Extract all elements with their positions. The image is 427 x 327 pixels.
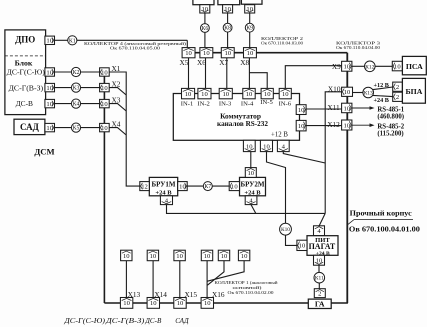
svg-text:IN-5: IN-5 [260,99,273,106]
svg-text:10: 10 [263,143,270,150]
connector 10 on БРУ1М [178,182,188,191]
cable К10 [280,223,292,235]
svg-text:К12: К12 [365,64,374,70]
connector X2 [100,83,110,91]
connector X7 [221,48,234,58]
svg-text:Ок 670.110.04.04.00: Ок 670.110.04.04.00 [336,45,380,50]
svg-text:ДС-Г(В-З): ДС-Г(В-З) [9,83,44,92]
svg-text:10: 10 [224,6,231,13]
wire К1 drop into X5 [186,40,188,47]
svg-text:10: 10 [248,170,255,177]
wire T2 to К8 [227,13,229,23]
dashed divider inside ДСМ box [5,55,46,57]
svg-text:10: 10 [150,253,157,260]
svg-text:10: 10 [231,183,238,190]
svg-text:10: 10 [176,253,183,260]
wire Коммутатор-4 to ПИТ line [283,152,325,163]
svg-text:X14: X14 [154,290,167,299]
cable К13 [363,87,374,98]
svg-text:10: 10 [343,105,350,112]
svg-text:IN-3: IN-3 [219,101,232,108]
connector IN-4 [243,88,255,98]
wire Коммутатор to X12 [306,125,342,127]
svg-text:10: 10 [46,69,53,76]
wire to X15 [179,261,181,298]
svg-text:10: 10 [222,91,229,98]
wire cable-6 merge to X16 [207,261,244,282]
svg-text:10: 10 [179,183,186,190]
wire to К3 [55,87,72,89]
wire to X13 [125,261,127,298]
svg-text:10: 10 [264,91,271,98]
connector 2 upper on БПА [393,82,403,91]
svg-text:ДС-Г(С-Ю): ДС-Г(С-Ю) [7,68,46,77]
svg-text:+12 В: +12 В [271,132,288,139]
connector bottom-1 on Коммутатор [243,140,255,151]
svg-text:К10: К10 [281,227,290,233]
svg-text:К3: К3 [73,86,80,92]
svg-text:IN-6: IN-6 [279,101,292,108]
cable К8 [223,23,232,32]
wire К4 to X3 [81,103,100,105]
wire БРУ2М-4 merge into power bus [251,205,256,214]
wire T1 to К6 [204,13,206,24]
wire X11 arrow RS-485-1 [352,107,372,109]
svg-text:К4: К4 [73,102,80,108]
wire Коммутатор to К10 [267,152,286,224]
connector X11 [342,103,352,113]
wire X8 to IN-4 [248,58,250,89]
wire К9 to X8 [249,32,251,48]
svg-text:X16: X16 [212,290,225,299]
connector cable-end 4 (Коллектор 1) [201,250,212,261]
wire X3 merge into group line [109,104,126,111]
connector X5 [182,48,195,58]
connector 10 under T1 [200,5,210,13]
wire БРУ1М to К7 [187,185,203,187]
svg-text:10: 10 [204,300,211,307]
cable К12 [365,61,376,72]
svg-text:10: 10 [123,300,130,307]
svg-text:10: 10 [298,107,305,114]
svg-text:10: 10 [203,50,210,57]
connector X8 [244,48,257,58]
svg-text:10: 10 [246,143,253,150]
cable К2 [71,67,80,76]
block (cut at top) T1 [193,0,214,5]
block БРУ1М [149,177,177,195]
connector 2 lower on БПА [393,92,403,101]
svg-text:RS-485-2: RS-485-2 [377,124,404,131]
wire to К2 [55,71,72,73]
svg-text:К11: К11 [315,276,324,282]
svg-text:ДС-Г(В-З): ДС-Г(В-З) [105,317,145,325]
connector X15 [174,298,186,309]
svg-text:10: 10 [241,253,248,260]
svg-text:10: 10 [185,50,192,57]
wire X5 to IN-1 [188,58,190,89]
block ПИТ АГАТ [307,236,338,256]
wire К1 to X5 (Коллектор 4) [77,39,187,41]
svg-text:САД: САД [20,122,40,132]
connector X13 [120,298,132,309]
svg-text:10: 10 [246,91,253,98]
svg-text:САД: САД [175,317,189,325]
cable К11 [314,272,325,283]
cable К1 [68,36,77,45]
wire БРУ1М-4 power bus [167,205,326,214]
svg-text:X6: X6 [197,58,206,67]
wire to К5 [55,127,72,129]
svg-text:Блок: Блок [15,58,33,67]
svg-text:10: 10 [101,125,108,132]
svg-text:10: 10 [298,123,305,130]
connector 12 on БРУ1М [140,182,150,191]
svg-text:10: 10 [247,50,254,57]
wire К3 to X2 [81,87,100,89]
svg-text:10: 10 [316,258,323,265]
wire К8 to X7 [227,32,229,48]
svg-text:каналов RS-232: каналов RS-232 [217,120,268,128]
svg-text:БПА: БПА [405,87,422,96]
svg-text:10: 10 [344,89,351,96]
svg-text:10: 10 [101,101,108,108]
wire К5 to X4 [81,127,100,129]
svg-text:К6: К6 [202,26,209,32]
svg-text:IN-4: IN-4 [241,101,254,108]
svg-text:10: 10 [46,38,53,45]
svg-text:Ок 670.110.04.03.00: Ок 670.110.04.03.00 [261,40,303,45]
block БПА [402,78,425,103]
wire К10 to ПИТ АГАТ [286,235,297,245]
block (cut at top) T3 [241,0,262,4]
block ДСМ outer box (ДПО + Блок ДС sensors) [5,30,46,115]
svg-text:К5: К5 [73,126,80,132]
svg-text:X8: X8 [240,58,249,67]
wire Коммутатор to X11 [306,108,342,110]
block (cut at top) T2 [218,0,240,5]
svg-text:X13: X13 [128,290,141,299]
svg-text:ПСА: ПСА [406,62,423,71]
connector X14 [147,298,159,309]
connector IN-2 [198,88,211,98]
connector cable-end 3 (Коллектор 1) [174,250,185,261]
block САД [14,119,45,134]
svg-text:X15: X15 [185,290,198,299]
connector X9 [342,61,352,71]
svg-text:10: 10 [224,50,231,57]
svg-text:X11: X11 [327,103,340,112]
svg-text:К1: К1 [69,38,76,44]
svg-text:К7: К7 [204,184,211,190]
connector 4 on БРУ2М [245,196,257,205]
connector 10 under T3 [245,5,255,13]
cable К7 [203,182,212,191]
svg-text:+12 В: +12 В [374,82,389,89]
wire К6 to X6 [204,32,206,47]
connector X10 [342,87,353,96]
svg-text:ДСМ: ДСМ [34,146,54,156]
svg-text:ДС-Г(С-Ю): ДС-Г(С-Ю) [63,317,105,325]
group line X1 to БРУ1М-12 [109,72,140,186]
svg-text:10: 10 [343,122,350,129]
wire cable-5 merge to X16 [207,261,224,286]
connector X16 [201,298,213,309]
connector cable-end 2 (Коллектор 1) [147,250,158,261]
svg-text:+24 В: +24 В [374,97,389,104]
svg-text:(115.200): (115.200) [377,131,403,138]
connector X6 [200,48,213,58]
connector X1 [100,68,110,76]
svg-text:10: 10 [101,85,108,92]
leader line Прочный корпус [347,220,413,225]
connector 10 left on БРУ2М [229,182,239,191]
wire К2 to X1 [81,71,100,73]
wire to X14 [152,261,154,298]
connector 10 on ДПО [45,36,55,44]
svg-text:БРУ1М: БРУ1М [152,181,176,189]
svg-text:К9: К9 [246,26,253,32]
wire X12 arrow RS-485-2 [352,124,372,126]
svg-text:К13: К13 [364,91,373,97]
svg-text:10: 10 [343,64,350,71]
connector 4 on БРУ1М [160,196,172,205]
svg-text:X5: X5 [180,58,189,67]
wire T3 to К9 [249,13,251,23]
connector 10 top on БРУ2М [245,168,256,178]
wire ПИТ АГАТ to К11 [318,265,320,272]
wire ДПО to К1 [55,39,68,41]
connector 10 on ПСА [392,61,402,71]
svg-text:10: 10 [177,300,184,307]
svg-text:IN-1: IN-1 [181,101,193,108]
connector 10 bottom on ПИТ АГАТ [314,255,325,265]
wire К12 to ПСА [375,65,392,67]
connector bottom-4 on Коммутатор [277,140,289,151]
cable К3 [71,83,80,92]
block ПСА [402,56,426,74]
svg-text:ДС-В: ДС-В [144,317,162,325]
wire X9 to IN-6 [285,66,341,89]
svg-text:RS-485-1: RS-485-1 [377,107,404,114]
connector 10 left on ПИТ АГАТ [297,240,307,250]
block БРУ2М [240,177,266,195]
wire to X16 [206,261,208,298]
connector X4 [100,123,110,131]
svg-text:10: 10 [299,243,306,250]
svg-text:10: 10 [201,91,208,98]
connector cable-end 6 (Коллектор 1) [238,250,249,261]
svg-text:10: 10 [123,253,130,260]
connector 2 on ГА [314,289,325,298]
wire X10 to К13 [353,92,363,94]
connector bottom-2 on Коммутатор [260,140,272,151]
svg-text:10: 10 [204,253,211,260]
connector cable-end 5 (Коллектор 1) [218,250,229,261]
svg-text:10: 10 [282,91,289,98]
connector 10 on ДС-Г(В-З) [45,83,55,91]
cable К4 [71,99,80,108]
svg-text:10: 10 [394,63,401,70]
wire X9 to К12 [352,65,365,67]
svg-text:10: 10 [221,253,228,260]
connector IN-5 [261,88,273,98]
svg-text:+24 В: +24 В [244,189,261,196]
connector 10 on ДС-Г(С-Ю) [45,68,55,76]
connector IN-3 [219,88,232,98]
connector 10 on ДС-В [45,99,55,107]
connector X3 [100,99,110,107]
svg-text:10: 10 [202,6,209,13]
wire X10 down to ПИТ АГАТ [325,92,341,214]
cable К9 [245,23,254,32]
block Коммутатор каналов RS-232 [173,94,299,141]
svg-text:2: 2 [396,84,399,91]
cable К6 [201,24,210,33]
wire Коммутатор to БРУ2М top [250,152,252,168]
svg-text:10: 10 [185,91,192,98]
svg-text:10: 10 [46,125,53,132]
bus Коллектор 1 bottom horizontal [104,302,308,304]
block ГА [308,299,331,308]
svg-text:10: 10 [101,69,108,76]
connector OUT lower on Коммутатор [296,120,306,130]
svg-text:12: 12 [141,183,148,190]
wire К13 to БПА +24В [373,95,393,96]
svg-text:Прочный корпус: Прочный корпус [350,209,413,217]
wire X2 merge into group line [109,88,126,95]
connector 10 on САД [45,123,55,131]
connector X12 [342,120,352,130]
svg-text:ГА: ГА [315,300,325,309]
svg-text:(460.800): (460.800) [377,114,404,121]
bus Коллектор 2 horizontal [182,52,347,54]
svg-text:К2: К2 [73,70,80,76]
svg-text:X9: X9 [332,62,341,71]
wire К7 to БРУ2М [213,185,230,187]
bus Коллектор 4 left riser [103,68,105,303]
connector OUT upper on Коммутатор [296,105,306,115]
connector cable-end 1 (Коллектор 1) [121,250,132,261]
wire К11 to ГА connector [318,283,320,289]
svg-text:10: 10 [46,85,53,92]
bus Коллектор 3 right riser [346,53,348,303]
connector IN-6 [279,88,291,98]
svg-text:+24 В: +24 В [155,189,172,196]
wire to К4 [55,103,72,105]
svg-text:Ов 670.100.04.01.00: Ов 670.100.04.01.00 [349,226,420,234]
cable К5 [71,123,80,132]
svg-text:10: 10 [150,300,157,307]
connector 10 under T2 [223,5,233,13]
svg-text:К8: К8 [224,26,231,32]
connector IN-1 [182,88,195,98]
wire X4 merge into group line [109,128,126,135]
wire X7 to IN-3 [226,58,228,89]
svg-text:ДС-В: ДС-В [16,99,33,108]
wire X6 to IN-2 [205,58,207,89]
wire power bus into ПИТ АГАТ-4 [319,213,325,225]
svg-text:Ок 670.110.04.02.00: Ок 670.110.04.02.00 [228,290,275,295]
svg-text:БРУ2М: БРУ2М [241,181,265,189]
wire К13 to БПА +12В [373,87,393,90]
svg-text:10: 10 [46,101,53,108]
svg-text:2: 2 [396,94,399,101]
svg-text:2: 2 [318,290,321,297]
wire X8 branch to IN-5 [249,73,267,89]
svg-text:Ок 670.110.04.05.00: Ок 670.110.04.05.00 [110,46,160,51]
svg-text:ДПО: ДПО [15,34,35,44]
svg-text:X12: X12 [327,120,340,129]
connector 4 on ПИТ АГАТ [314,226,325,236]
bus segment ГА to right riser [331,302,348,304]
svg-text:IN-2: IN-2 [197,101,209,108]
svg-text:10: 10 [246,6,253,13]
